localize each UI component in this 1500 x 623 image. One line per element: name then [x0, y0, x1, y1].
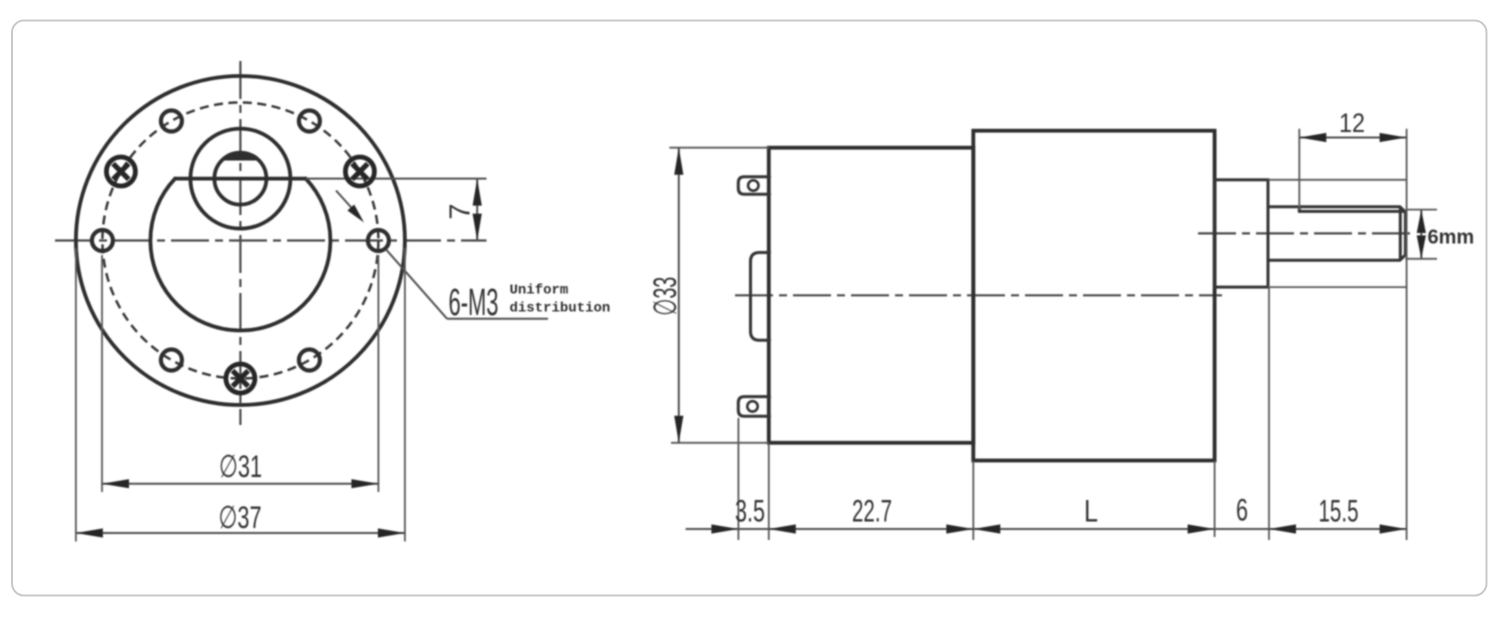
svg-text:∅31: ∅31	[219, 448, 262, 484]
svg-text:L: L	[1084, 493, 1098, 529]
svg-text:6-M3: 6-M3	[449, 282, 499, 324]
svg-text:22.7: 22.7	[852, 493, 892, 529]
svg-text:7: 7	[445, 204, 477, 220]
svg-text:15.5: 15.5	[1319, 493, 1359, 529]
svg-text:3.5: 3.5	[735, 493, 765, 529]
svg-text:6: 6	[1236, 492, 1248, 528]
svg-text:6mm: 6mm	[1428, 227, 1475, 249]
svg-text:∅37: ∅37	[219, 499, 262, 535]
svg-text:distribution: distribution	[510, 301, 611, 317]
svg-text:12: 12	[1339, 108, 1365, 138]
svg-text:∅33: ∅33	[647, 277, 683, 316]
svg-text:Uniform: Uniform	[510, 283, 569, 299]
